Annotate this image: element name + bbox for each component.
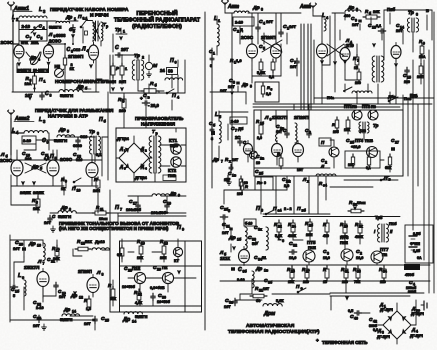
svg-text:2-10: 2-10 — [235, 20, 244, 25]
svg-text:2-10: 2-10 — [36, 306, 44, 310]
svg-text:5МКГН: 5МКГН — [58, 214, 71, 219]
capacitor C 20T — [115, 45, 129, 57]
label L strip — [302, 177, 309, 184]
svg-text:33: 33 — [252, 238, 256, 242]
svg-text:2: 2 — [142, 56, 144, 60]
svg-text:2П29П: 2П29П — [78, 269, 92, 274]
svg-text:40: 40 — [354, 317, 358, 321]
text ATR line2 — [228, 329, 320, 335]
svg-text:5: 5 — [67, 130, 69, 134]
svg-text:С: С — [238, 267, 242, 273]
text priemnik line2 — [59, 226, 169, 231]
label L6c — [18, 273, 24, 280]
antenna Ant3 — [222, 0, 240, 13]
title line 1 — [136, 9, 177, 17]
svg-text:Др: Др — [169, 191, 176, 196]
label C9b — [42, 138, 49, 145]
resistor R21 — [250, 286, 284, 303]
svg-text:3: 3 — [97, 132, 99, 136]
microphone M — [145, 62, 158, 69]
svg-text:2: 2 — [145, 149, 147, 153]
svg-text:3: 3 — [356, 8, 358, 12]
svg-text:Р: Р — [116, 66, 119, 71]
svg-text:3.1: 3.1 — [83, 17, 88, 21]
svg-text:10К: 10К — [348, 163, 355, 167]
svg-text:200: 200 — [119, 108, 126, 113]
svg-text:х: х — [307, 180, 309, 184]
choke Dr9 — [152, 191, 180, 198]
svg-text:Д: Д — [119, 146, 123, 151]
label Dr6 under — [76, 84, 91, 91]
svg-text:8: 8 — [102, 273, 104, 277]
transistor PT1 — [352, 110, 362, 120]
svg-text:6: 6 — [65, 180, 67, 184]
svg-text:5МКГН: 5МКГН — [54, 138, 67, 143]
svg-text:б-10: б-10 — [245, 222, 252, 226]
svg-text:П: П — [39, 77, 43, 83]
svg-text:7: 7 — [43, 262, 45, 266]
svg-text:1: 1 — [124, 149, 126, 153]
svg-text:20К: 20К — [373, 10, 380, 14]
tube V16 — [239, 247, 250, 266]
svg-text:5: 5 — [228, 209, 230, 213]
receiver box — [120, 241, 202, 312]
svg-text:Тр: Тр — [115, 27, 121, 33]
svg-text:(РАДИОТЕЛЕФОН): (РАДИОТЕЛЕФОН) — [132, 24, 182, 30]
svg-text:2-10: 2-10 — [23, 138, 32, 143]
svg-text:10Т: 10Т — [352, 23, 359, 27]
label C28 P1E — [124, 266, 140, 273]
capacitor C24 — [33, 314, 41, 328]
label P3 bus — [256, 206, 263, 213]
text telefonnaya set — [316, 338, 368, 345]
label PT5 — [307, 240, 316, 250]
label 2S30 mid — [60, 157, 73, 162]
label L3 — [39, 7, 46, 14]
wires recv box — [110, 266, 201, 312]
wire recv box inner — [113, 239, 201, 306]
svg-text:R: R — [245, 184, 248, 189]
label 2S — [235, 135, 240, 140]
svg-text:Др: Др — [29, 55, 36, 60]
svg-text:2-10: 2-10 — [22, 24, 31, 29]
wires bottom bus — [220, 265, 430, 300]
capacitor C42 — [369, 317, 378, 332]
label 2S3O right — [49, 39, 62, 44]
svg-text:5: 5 — [13, 294, 15, 298]
capacitor C4r — [256, 19, 274, 32]
label D3 — [119, 164, 126, 171]
svg-text:Пяб: Пяб — [387, 7, 396, 12]
svg-text:22: 22 — [278, 225, 282, 229]
svg-text:Др13: Др13 — [95, 239, 106, 244]
tube V15 — [293, 141, 304, 160]
svg-text:10К: 10К — [137, 256, 144, 260]
resistor R1r — [257, 59, 266, 75]
labels Dr R mid — [212, 157, 239, 164]
capacitor C41 — [406, 280, 417, 294]
tube V9 — [247, 41, 258, 61]
svg-text:6: 6 — [282, 239, 284, 243]
tube V17 — [243, 141, 252, 158]
battery box — [405, 225, 433, 263]
choke Dr5 — [54, 127, 75, 143]
label P3V 2 — [168, 173, 176, 178]
transistor PT7 — [371, 251, 383, 263]
label C3 C13 — [67, 47, 89, 54]
labels 10K 20P — [109, 80, 126, 84]
capacitor C18b — [44, 214, 56, 225]
label L9 2Zh27P — [264, 115, 288, 122]
svg-text:9: 9 — [182, 228, 184, 232]
svg-text:2Ж27Л: 2Ж27Л — [24, 265, 39, 270]
svg-text:НАГРУЗКИ В АТР: НАГРУЗКИ В АТР — [48, 114, 88, 119]
svg-text:2-10: 2-10 — [237, 278, 245, 282]
bridge2 diodes — [388, 316, 407, 334]
resistor R18b — [160, 239, 168, 260]
svg-text:6: 6 — [175, 61, 177, 65]
resistor R9r — [419, 39, 426, 59]
svg-text:П: П — [256, 206, 260, 212]
svg-text:ПТ4: ПТ4 — [355, 138, 364, 143]
svg-text:3: 3 — [233, 81, 235, 85]
svg-text:7: 7 — [221, 160, 223, 164]
switch P10 — [73, 178, 81, 183]
label 450b — [404, 264, 420, 277]
svg-text:б0: б0 — [256, 299, 260, 303]
label L2 — [12, 15, 19, 22]
choke Dr6 — [25, 163, 46, 173]
label D1b — [379, 302, 393, 312]
label C2r — [233, 27, 243, 34]
svg-text:0,1: 0,1 — [96, 152, 102, 157]
wire right hline98 — [314, 87, 434, 98]
transistor PT6 — [341, 249, 353, 261]
left border wire — [5, 92, 10, 322]
resistor R3 — [25, 73, 37, 87]
label nomeronabiratel — [55, 79, 111, 85]
svg-text:21: 21 — [51, 260, 55, 264]
wire conv net — [110, 93, 192, 213]
svg-text:50: 50 — [252, 242, 256, 246]
resistor R19 — [137, 239, 145, 260]
text ATR line1 — [246, 323, 295, 329]
capacitor C34 — [254, 255, 266, 262]
coil L5 vertical — [219, 121, 221, 143]
svg-text:L: L — [39, 7, 42, 13]
tube V3 — [89, 42, 99, 63]
transformer Tr2 label — [134, 53, 144, 60]
label L4b — [12, 128, 19, 135]
var cap box r — [233, 17, 254, 26]
svg-text:17: 17 — [56, 249, 60, 253]
svg-text:ДГ-Ц2Ч: ДГ-Ц2Ч — [411, 312, 424, 316]
capacitor C3z — [323, 249, 330, 260]
svg-text:5МКГН: 5МКГН — [49, 26, 62, 30]
resistor R28 — [323, 220, 329, 238]
coil L6 v — [24, 280, 26, 296]
svg-text:4,3К: 4,3К — [135, 301, 143, 305]
capacitor C30 — [151, 293, 171, 304]
svg-text:20Т: 20Т — [121, 47, 129, 52]
tube V8 — [87, 275, 99, 296]
wires lower left — [10, 240, 95, 320]
svg-text:5,0Ж: 5,0Ж — [257, 71, 266, 75]
svg-text:R: R — [332, 122, 335, 127]
capacitor C2q — [356, 249, 363, 260]
svg-text:4: 4 — [38, 58, 40, 62]
svg-text:24: 24 — [160, 68, 165, 73]
label P1 — [39, 77, 46, 84]
label Ant2 — [14, 116, 34, 122]
capacitor C15r — [403, 67, 411, 84]
svg-text:о4: о4 — [323, 184, 327, 188]
svg-text:Др: Др — [65, 15, 72, 20]
svg-text:51: 51 — [262, 256, 266, 260]
resistor R20 68K — [385, 154, 392, 170]
svg-text:3: 3 — [211, 137, 213, 141]
capacitor C14r — [396, 23, 404, 33]
svg-text:2: 2 — [325, 161, 327, 165]
ground mid18 — [227, 179, 232, 185]
text priemnik line1 — [59, 221, 180, 226]
svg-text:1,2б: 1,2б — [413, 249, 421, 253]
svg-text:27: 27 — [395, 141, 399, 145]
label C36 — [264, 278, 273, 285]
label C21 — [47, 257, 55, 264]
svg-text:0,1: 0,1 — [366, 166, 371, 170]
svg-text:1К: 1К — [70, 67, 75, 71]
wire tall bars right — [294, 24, 318, 176]
svg-text:Тр: Тр — [134, 53, 140, 59]
svg-text:10Т: 10Т — [289, 24, 296, 29]
text peredatchik razmykaniya — [35, 108, 114, 113]
tube V6 — [86, 160, 98, 181]
label 2S3S mid — [0, 158, 13, 163]
wires subckt — [212, 111, 248, 190]
svg-text:4: 4 — [43, 26, 45, 30]
svg-text:2б: 2б — [309, 224, 313, 228]
wires mic area — [119, 55, 167, 93]
coil under relay — [165, 78, 183, 80]
switch bottom mic — [166, 89, 174, 94]
battery cells — [409, 232, 422, 260]
capacitor Cry — [305, 128, 311, 138]
svg-text:С10: С10 — [80, 134, 88, 139]
antenna Ant1 — [8, 2, 20, 44]
bridge diodes — [125, 148, 145, 169]
svg-text:8: 8 — [50, 94, 52, 98]
svg-text:20МЖ: 20МЖ — [20, 191, 31, 195]
svg-text:200: 200 — [355, 81, 361, 85]
svg-text:6: 6 — [22, 276, 24, 280]
wires mic left — [111, 55, 124, 92]
svg-text:П1Б: П1Б — [365, 138, 373, 143]
svg-text:2: 2 — [237, 30, 239, 34]
svg-text:0А: 0А — [417, 256, 422, 260]
capacitor C3r2 — [231, 267, 247, 282]
svg-text:110: 110 — [380, 280, 386, 284]
resistor R10r — [417, 63, 424, 79]
label C7 C5 — [26, 34, 43, 41]
wire rail x110 — [110, 213, 186, 312]
wire right top2 — [313, 2, 432, 92]
svg-text:2 - 2: 2 - 2 — [284, 207, 292, 211]
text napryazheniya — [141, 122, 176, 127]
label 03+60b — [150, 286, 165, 290]
svg-text:5,1К: 5,1К — [276, 299, 284, 303]
svg-text:51К: 51К — [110, 297, 117, 301]
tube V7 — [37, 269, 49, 290]
svg-text:б: б — [369, 12, 371, 16]
svg-text:R: R — [118, 97, 122, 102]
resistor R2y — [355, 221, 364, 239]
label P6b — [99, 117, 107, 124]
label 2P29P — [68, 54, 84, 60]
svg-text:10Т: 10Т — [222, 231, 229, 235]
svg-text:2: 2 — [360, 252, 362, 256]
svg-text:3: 3 — [327, 252, 329, 256]
switch Po — [296, 284, 306, 293]
capacitor C1r — [279, 24, 297, 37]
transformer Tr3 — [90, 136, 101, 154]
svg-text:9: 9 — [355, 19, 357, 23]
svg-text:42: 42 — [373, 320, 377, 324]
svg-text:10Т: 10Т — [220, 89, 227, 93]
svg-text:15: 15 — [407, 76, 411, 80]
svg-text:П3В: П3В — [170, 143, 178, 148]
left half hline44 — [12, 20, 74, 45]
svg-text:Др: Др — [228, 235, 236, 241]
svg-text:С13: С13 — [73, 47, 81, 52]
svg-text:Др: Др — [58, 127, 66, 133]
resistor R5 200 — [118, 96, 126, 113]
svg-text:Др: Др — [60, 205, 68, 211]
resistor R29 — [323, 266, 329, 284]
wires mid block — [11, 133, 95, 162]
svg-text:2n: 2n — [260, 157, 264, 161]
capacitor C8 bus — [25, 91, 52, 100]
svg-text:П3В: П3В — [168, 173, 176, 178]
svg-text:7: 7 — [30, 37, 32, 41]
transistor KT4 — [162, 272, 173, 283]
variable cap box2 — [22, 136, 36, 144]
right margin verticals — [403, 12, 434, 293]
svg-text:14: 14 — [72, 310, 76, 314]
svg-text:ДГ-Ц2Ч: ДГ-Ц2Ч — [380, 308, 393, 312]
svg-text:ПЕРЕНОСНЫЙ: ПЕРЕНОСНЫЙ — [136, 9, 177, 17]
svg-text:П1Е: П1Е — [308, 245, 316, 250]
variable capacitor arrow — [31, 26, 38, 37]
label L5 — [39, 117, 46, 124]
svg-text:ДГ-Ц2Ч: ДГ-Ц2Ч — [377, 335, 390, 339]
svg-text:L: L — [322, 13, 325, 19]
label L5r — [215, 112, 221, 119]
svg-text:Д: Д — [119, 164, 123, 169]
label Pa4 — [273, 206, 307, 213]
resistor R19r — [366, 154, 371, 170]
wire title drop — [116, 28, 127, 34]
svg-text:2П29П: 2П29П — [68, 54, 84, 60]
ground C24 — [42, 324, 47, 330]
svg-text:10Т: 10Т — [59, 295, 66, 299]
label P5 — [50, 154, 57, 161]
capacitor C mid18 — [228, 164, 237, 177]
capacitor C2b5 — [220, 205, 230, 219]
svg-text:10Т: 10Т — [232, 158, 239, 162]
capacitor C17 100x50 — [126, 199, 142, 212]
svg-text:5ПК: 5ПК — [21, 41, 29, 45]
box right section — [384, 10, 432, 60]
label Tr4 — [152, 129, 159, 136]
svg-text:3: 3 — [36, 201, 38, 205]
label Dr3r — [252, 5, 263, 12]
svg-text:1: 1 — [123, 30, 125, 34]
dial NB label — [55, 64, 61, 69]
resistor R6b — [61, 177, 67, 191]
svg-text:2П29П: 2П29П — [261, 35, 276, 40]
tall switch bars — [301, 24, 308, 103]
svg-text:П3: П3 — [352, 105, 357, 109]
wire right verticals to bus — [261, 20, 413, 110]
capacitor C8r2 — [238, 138, 247, 146]
resistor R4 — [111, 63, 119, 78]
svg-text:3: 3 — [382, 331, 384, 335]
resistor R6r — [363, 9, 380, 19]
transistor PT5 — [303, 250, 315, 262]
label +200 — [351, 145, 361, 149]
svg-text:75Е: 75Е — [354, 280, 361, 284]
pot R2x 10 — [348, 200, 366, 213]
label C29 P2 — [153, 265, 168, 272]
label 2P29P rr — [294, 115, 309, 120]
svg-text:12: 12 — [79, 296, 83, 300]
label D2b — [411, 306, 424, 316]
resistor R16k — [348, 154, 355, 168]
transformer Tr4r — [372, 56, 384, 82]
label L4r — [322, 13, 329, 20]
resistor R24 — [288, 220, 297, 238]
tank circuit box — [19, 21, 47, 41]
coil v lower — [245, 227, 247, 249]
svg-text:10Т: 10Т — [266, 19, 273, 24]
svg-text:10Т: 10Т — [228, 85, 235, 89]
choke Dr4 scribble — [26, 52, 41, 65]
label P3V 1 — [170, 143, 178, 148]
resistor R2 vertical — [63, 44, 74, 73]
resistor R2r — [269, 59, 275, 79]
label P16 — [389, 221, 397, 226]
capacitor C19 100x50 — [151, 199, 171, 215]
svg-text:П: П — [170, 58, 174, 64]
capacitor C2m — [282, 176, 291, 188]
var cap box r2 — [230, 117, 247, 124]
transistor left edge — [329, 147, 339, 157]
capacitor C20 — [13, 240, 26, 257]
label C26 — [255, 168, 304, 176]
wire tube cathode bus — [17, 63, 49, 76]
svg-text:C: C — [115, 45, 119, 51]
svg-text:15: 15 — [323, 280, 327, 284]
svg-text:1,0: 1,0 — [236, 58, 242, 63]
svg-text:Л: Л — [81, 47, 86, 53]
svg-text:а4: а4 — [278, 209, 282, 213]
wire mid2 net — [11, 92, 108, 180]
svg-text:20б: 20б — [333, 130, 339, 134]
anode arrows right top — [320, 40, 398, 68]
tube V11 — [317, 41, 328, 61]
svg-text:430: 430 — [323, 234, 329, 238]
